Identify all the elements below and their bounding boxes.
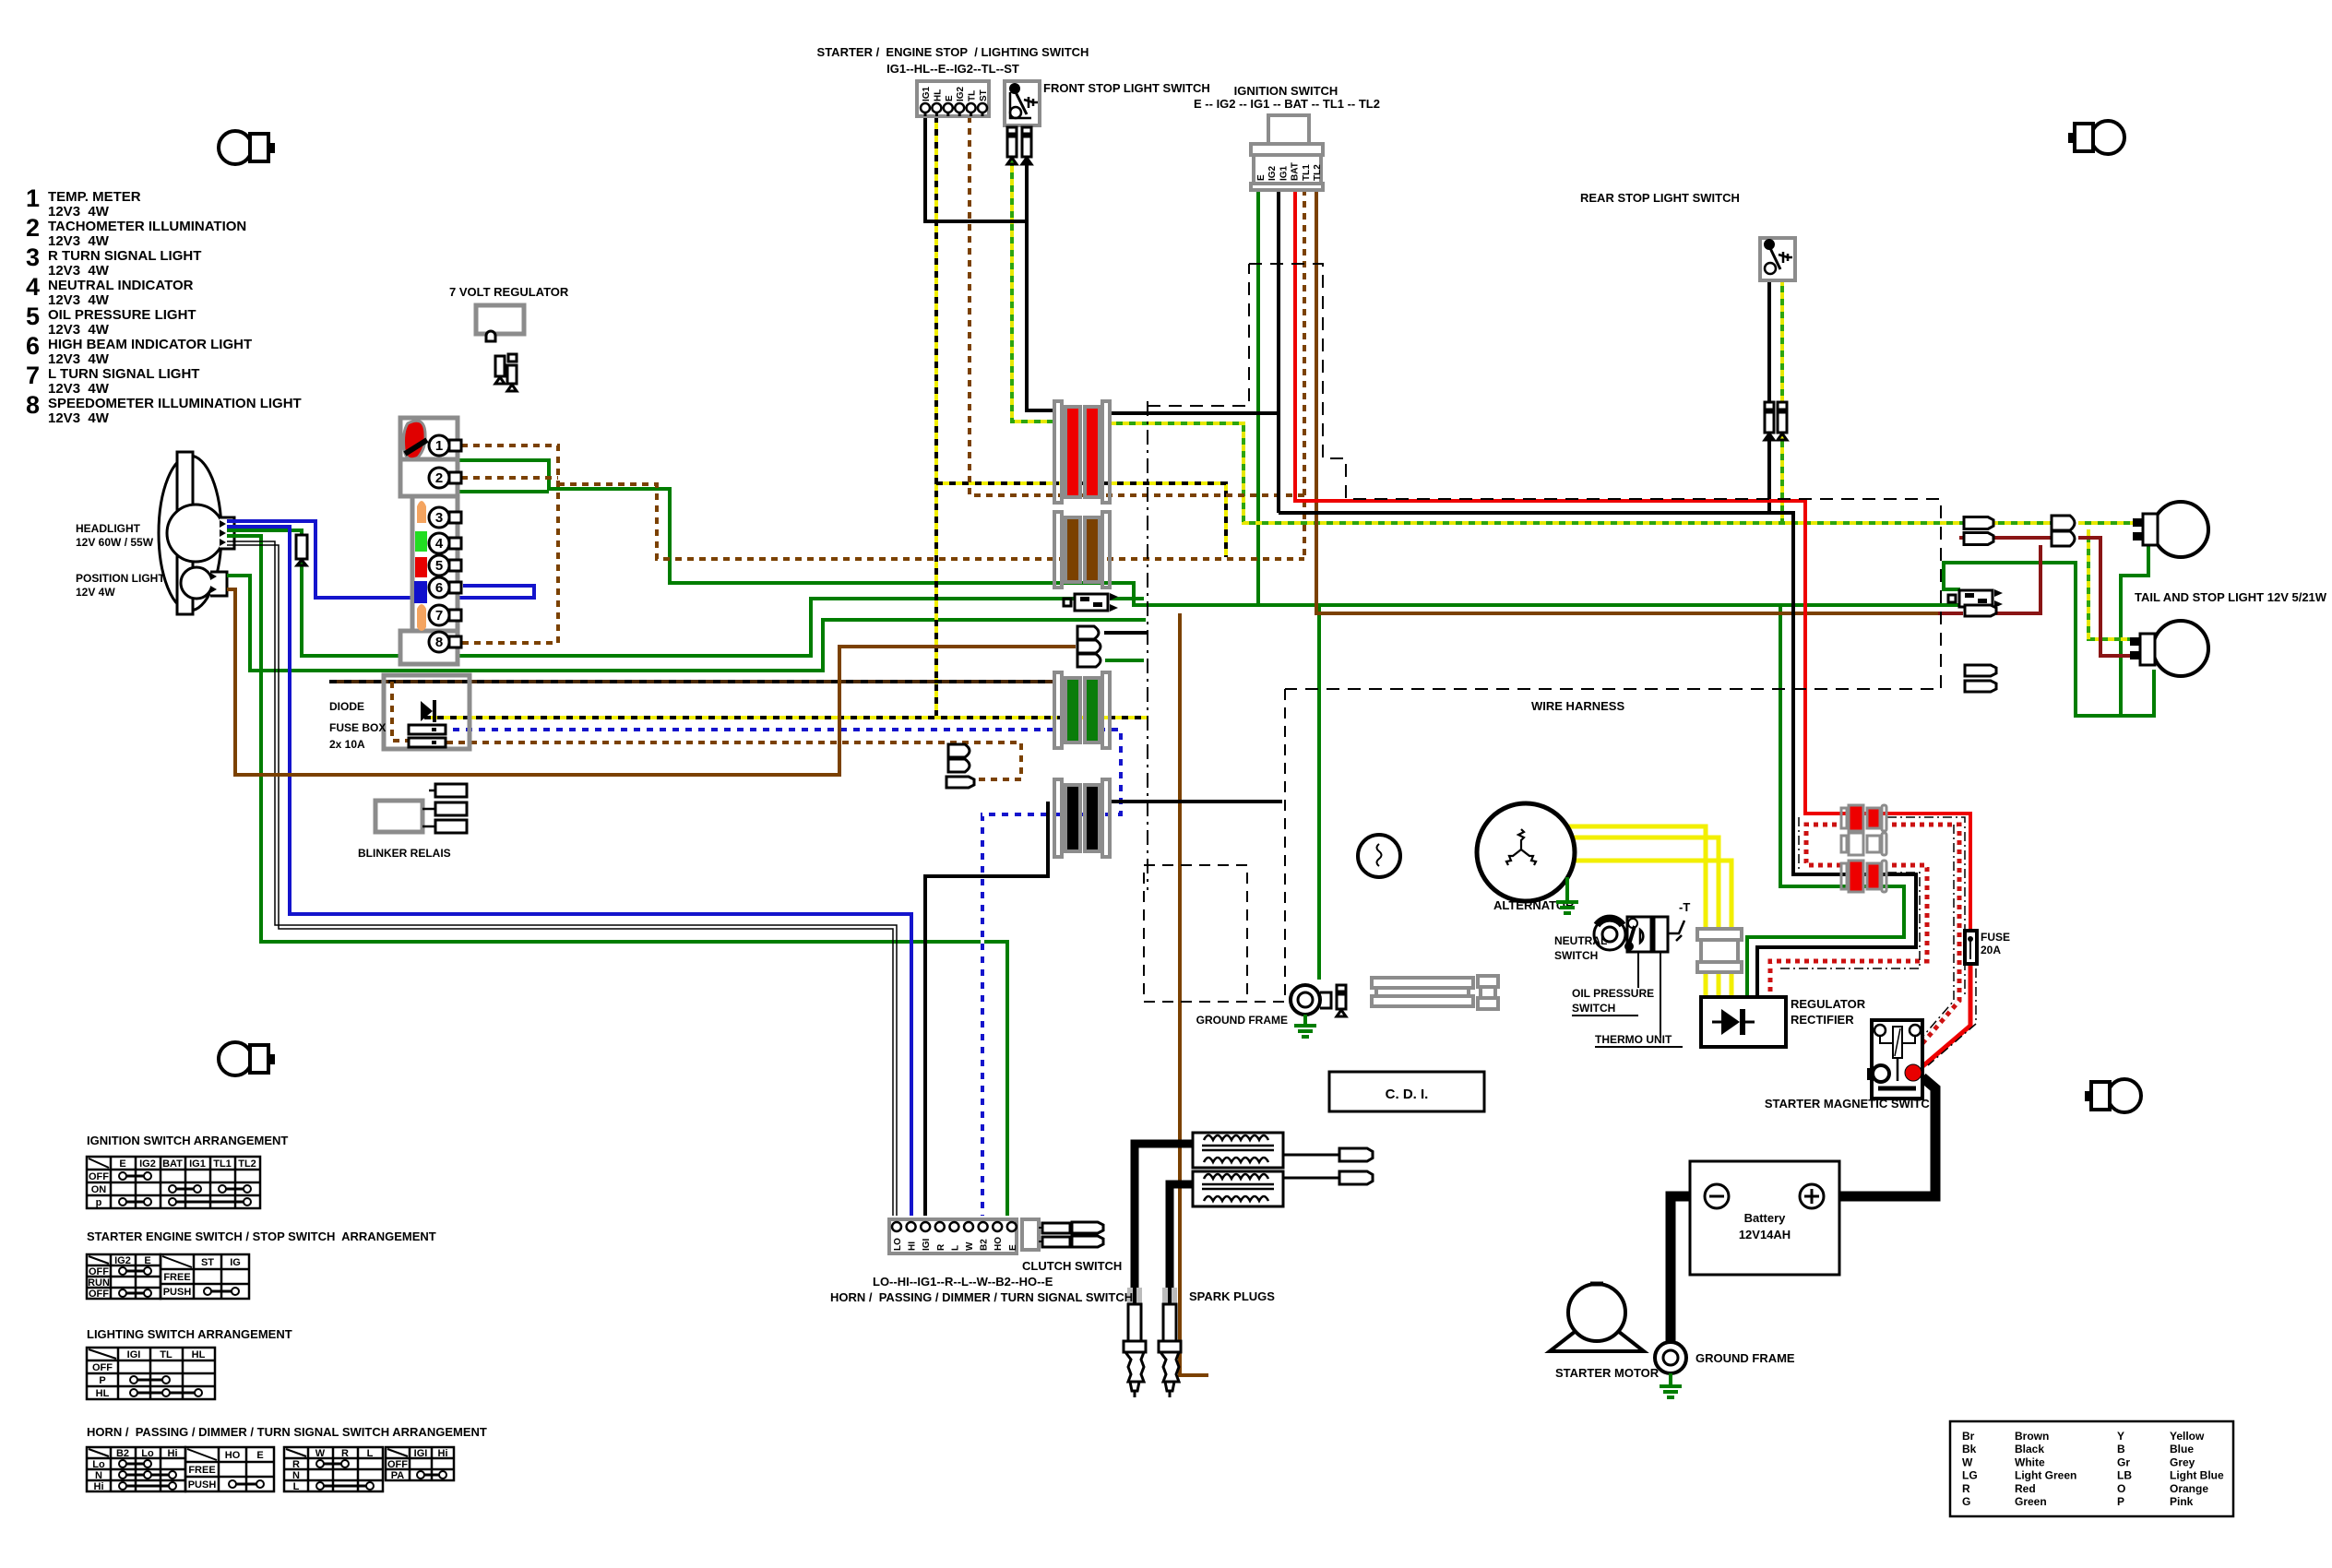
handlebar right switch connector bbox=[917, 81, 989, 116]
bulb rear-right turn signal bbox=[2108, 1079, 2141, 1112]
svg-text:Y: Y bbox=[2117, 1430, 2124, 1443]
svg-text:TEMP. METER: TEMP. METER bbox=[48, 189, 141, 205]
bullet connectors mid column bbox=[1077, 626, 1099, 639]
spade pair rear bbox=[1959, 590, 1993, 607]
wire brown dashed fuse output bbox=[446, 742, 1021, 779]
wire brown dashed into fuse box bbox=[392, 682, 409, 741]
wire brown/black dashed long run bbox=[329, 680, 1054, 683]
bullet connectors left of black block bbox=[948, 744, 970, 757]
oil pressure switch symbol bbox=[1627, 917, 1651, 952]
svg-text:5: 5 bbox=[435, 558, 443, 574]
svg-text:REAR STOP LIGHT SWITCH: REAR STOP LIGHT SWITCH bbox=[1580, 191, 1740, 205]
small fuse near ground bbox=[1337, 985, 1346, 992]
svg-text:NEUTRAL INDICATOR: NEUTRAL INDICATOR bbox=[48, 278, 194, 293]
svg-text:Light Blue: Light Blue bbox=[2170, 1469, 2224, 1482]
svg-text:HL: HL bbox=[933, 89, 943, 101]
svg-text:TL1: TL1 bbox=[1302, 164, 1312, 181]
wire harness dashed boundary bbox=[1249, 264, 1941, 689]
svg-text:TACHOMETER ILLUMINATION: TACHOMETER ILLUMINATION bbox=[48, 219, 246, 234]
svg-text:IG2: IG2 bbox=[139, 1158, 156, 1170]
bullet connectors unused rear bbox=[1965, 665, 1996, 676]
wire black bullet stub bbox=[1104, 631, 1148, 635]
svg-text:IGI: IGI bbox=[922, 1238, 932, 1251]
svg-text:BAT: BAT bbox=[1291, 162, 1301, 181]
svg-text:IG2: IG2 bbox=[114, 1255, 131, 1266]
svg-text:SWITCH: SWITCH bbox=[1572, 1002, 1615, 1015]
svg-text:Lo: Lo bbox=[92, 1459, 105, 1470]
cluster bulbs 1-8 bbox=[429, 435, 449, 456]
svg-text:IG1: IG1 bbox=[1279, 165, 1289, 181]
svg-text:3: 3 bbox=[435, 510, 443, 526]
svg-text:IG: IG bbox=[230, 1257, 241, 1268]
svg-text:WIRE HARNESS: WIRE HARNESS bbox=[1531, 699, 1624, 713]
svg-text:IG1: IG1 bbox=[189, 1158, 206, 1170]
svg-text:L: L bbox=[950, 1245, 960, 1251]
svg-text:-T: -T bbox=[1679, 900, 1690, 914]
svg-text:E: E bbox=[144, 1255, 150, 1266]
svg-text:Red: Red bbox=[2015, 1482, 2036, 1495]
svg-text:12V 60W / 55W: 12V 60W / 55W bbox=[76, 536, 154, 549]
svg-text:W: W bbox=[1962, 1455, 1973, 1468]
white connector pair mid bbox=[1841, 836, 1847, 852]
wire green cluster feed bbox=[458, 460, 1960, 605]
neutral switch bbox=[1594, 919, 1625, 950]
svg-text:Br: Br bbox=[1962, 1430, 1975, 1443]
svg-text:IGI: IGI bbox=[414, 1448, 428, 1459]
svg-text:Hi: Hi bbox=[168, 1448, 178, 1459]
wire blue high beam indicator loop bbox=[227, 521, 534, 598]
svg-text:HIGH BEAM INDICATOR LIGHT: HIGH BEAM INDICATOR LIGHT bbox=[48, 337, 252, 352]
ground frame mid bbox=[1291, 985, 1320, 1015]
svg-text:L: L bbox=[293, 1481, 300, 1492]
svg-text:C. D. I.: C. D. I. bbox=[1386, 1087, 1429, 1102]
ignition coil 1 bbox=[1193, 1133, 1283, 1168]
position light bulb bbox=[181, 567, 212, 599]
svg-text:Brown: Brown bbox=[2015, 1430, 2049, 1443]
svg-text:IG2: IG2 bbox=[956, 86, 966, 101]
svg-text:Grey: Grey bbox=[2170, 1455, 2195, 1468]
svg-text:Lo: Lo bbox=[141, 1448, 154, 1459]
svg-text:W: W bbox=[315, 1448, 326, 1459]
wire green headlight feed long run bbox=[227, 530, 1075, 656]
svg-text:OFF: OFF bbox=[92, 1362, 113, 1373]
starter magnetic switch bbox=[1872, 1020, 1922, 1099]
thermo unit symbol bbox=[1654, 917, 1668, 952]
svg-text:12V3 4W: 12V3 4W bbox=[48, 410, 110, 426]
svg-text:OIL PRESSURE LIGHT: OIL PRESSURE LIGHT bbox=[48, 307, 196, 323]
fuses under rear stop switch bbox=[1765, 402, 1774, 410]
svg-text:Blue: Blue bbox=[2170, 1443, 2194, 1455]
svg-text:8: 8 bbox=[435, 635, 443, 650]
svg-text:TL2: TL2 bbox=[238, 1158, 256, 1170]
svg-text:STARTER MOTOR: STARTER MOTOR bbox=[1555, 1366, 1660, 1380]
svg-text:Gr: Gr bbox=[2117, 1455, 2130, 1468]
svg-text:HO: HO bbox=[225, 1450, 241, 1461]
svg-text:LB: LB bbox=[2117, 1469, 2132, 1482]
svg-text:TL1: TL1 bbox=[213, 1158, 232, 1170]
svg-text:Hi: Hi bbox=[438, 1448, 448, 1459]
svg-text:L TURN SIGNAL LIGHT: L TURN SIGNAL LIGHT bbox=[48, 366, 199, 382]
svg-text:POSITION LIGHT: POSITION LIGHT bbox=[76, 572, 165, 585]
starter coil feed cables bbox=[1135, 1144, 1196, 1288]
svg-text:IG1: IG1 bbox=[922, 86, 932, 101]
cluster colour swatches bbox=[417, 501, 426, 523]
svg-text:p: p bbox=[96, 1197, 102, 1208]
svg-text:5: 5 bbox=[26, 303, 40, 330]
svg-text:OFF: OFF bbox=[89, 1266, 109, 1277]
svg-text:6: 6 bbox=[435, 580, 443, 596]
svg-text:G: G bbox=[1962, 1495, 1970, 1508]
spark plug 2 bbox=[1162, 1288, 1177, 1304]
wire green ignition switch E branch bbox=[1256, 189, 1260, 605]
svg-text:HORN / PASSING / DIMMER / TUR: HORN / PASSING / DIMMER / TURN SIGNAL SW… bbox=[87, 1425, 487, 1439]
fuse pair below regulator bbox=[495, 356, 505, 376]
svg-text:PUSH: PUSH bbox=[188, 1479, 217, 1491]
svg-text:OFF: OFF bbox=[387, 1459, 408, 1470]
wire black rear stop switch branch bbox=[1767, 279, 1771, 513]
svg-text:OIL PRESSURE: OIL PRESSURE bbox=[1572, 987, 1654, 1000]
svg-text:W: W bbox=[965, 1241, 975, 1251]
svg-text:1: 1 bbox=[435, 438, 443, 454]
svg-text:HORN / PASSING / DIMMER / TUR: HORN / PASSING / DIMMER / TURN SIGNAL SW… bbox=[830, 1290, 1133, 1304]
regulator rectifier bbox=[1701, 997, 1786, 1047]
connector block green 4P bbox=[1054, 672, 1062, 748]
svg-text:HEADLIGHT: HEADLIGHT bbox=[76, 522, 141, 535]
wire colour legend bbox=[1950, 1421, 2233, 1516]
front stop light switch bbox=[1005, 81, 1040, 125]
svg-text:O: O bbox=[2117, 1482, 2125, 1495]
starter motor bbox=[1550, 1328, 1644, 1351]
wire light-green/yellow rear stop switch branch bbox=[1780, 279, 1784, 523]
connector bars near ground frame bbox=[1372, 978, 1473, 988]
svg-text:LIGHTING SWITCH ARRANGEMENT: LIGHTING SWITCH ARRANGEMENT bbox=[87, 1327, 292, 1341]
inline fuse on headlight feed bbox=[296, 535, 307, 559]
svg-text:TL: TL bbox=[160, 1349, 173, 1360]
bulb front-left turn signal bbox=[219, 131, 252, 164]
svg-text:ST: ST bbox=[979, 89, 989, 101]
wire green tail light loop bbox=[2121, 545, 2148, 716]
svg-text:7: 7 bbox=[435, 608, 443, 624]
svg-text:E -- IG2 -- IG1 -- BAT -- TL1: E -- IG2 -- IG1 -- BAT -- TL1 -- TL2 bbox=[1194, 97, 1380, 111]
wire yellow/black branch upper bbox=[936, 483, 1226, 557]
fuse 2 in fuse box bbox=[409, 738, 446, 747]
svg-text:PA: PA bbox=[391, 1470, 405, 1481]
svg-text:N: N bbox=[95, 1470, 102, 1481]
wire green headlight low beam to switch connector bbox=[227, 536, 1007, 1216]
spark plug 1 bbox=[1127, 1288, 1142, 1304]
svg-text:IGI: IGI bbox=[127, 1349, 141, 1360]
red connector pair lower bbox=[1841, 863, 1847, 889]
svg-text:Green: Green bbox=[2015, 1495, 2047, 1508]
battery cable negative to ground bbox=[1671, 1196, 1708, 1345]
fuses under front stop switch bbox=[1007, 127, 1017, 134]
svg-text:P: P bbox=[2117, 1495, 2124, 1508]
wire brown dashed lighting switch TL bbox=[970, 116, 1304, 495]
wire green branch down to ground connector bbox=[1317, 605, 1321, 980]
svg-text:OFF: OFF bbox=[89, 1289, 109, 1300]
svg-text:BLINKER RELAIS: BLINKER RELAIS bbox=[358, 847, 451, 860]
svg-text:HL: HL bbox=[96, 1388, 110, 1399]
horn/dimmer switch connector bbox=[889, 1219, 1017, 1253]
dash-dot outline of starter cable bbox=[1887, 817, 1965, 998]
svg-text:Pink: Pink bbox=[2170, 1495, 2194, 1508]
wire black connector block to switch connector bbox=[1110, 800, 1282, 803]
svg-text:E: E bbox=[1256, 174, 1267, 181]
svg-text:E: E bbox=[119, 1158, 125, 1170]
wire blue/white fuse box to switch connector bbox=[446, 730, 1121, 1216]
diode symbol bbox=[421, 701, 433, 721]
blinker relais bbox=[375, 801, 422, 832]
CDI box bbox=[1329, 1072, 1484, 1111]
svg-text:R TURN SIGNAL LIGHT: R TURN SIGNAL LIGHT bbox=[48, 248, 201, 264]
wire green cluster stub bbox=[458, 490, 549, 493]
wire brown branch to coil area bbox=[1180, 613, 1208, 1375]
svg-text:12V3 4W: 12V3 4W bbox=[48, 351, 110, 367]
wire black main run to regulator bbox=[1110, 411, 1279, 415]
svg-text:RUN: RUN bbox=[88, 1277, 110, 1289]
svg-text:HI: HI bbox=[908, 1241, 918, 1251]
svg-text:FREE: FREE bbox=[188, 1465, 215, 1476]
svg-text:L: L bbox=[367, 1448, 374, 1459]
svg-text:8: 8 bbox=[26, 391, 40, 419]
wire light-green/yellow main run to rear bbox=[1110, 423, 2052, 523]
diode and fuse box housing bbox=[384, 675, 470, 749]
alternator ground bbox=[1565, 877, 1569, 902]
svg-text:DIODE: DIODE bbox=[329, 700, 364, 713]
svg-text:THERMO UNIT: THERMO UNIT bbox=[1595, 1033, 1672, 1046]
svg-text:Light Green: Light Green bbox=[2015, 1469, 2076, 1482]
svg-text:ON: ON bbox=[91, 1184, 107, 1195]
battery cable positive to starter switch bbox=[1821, 1077, 1935, 1196]
fuse 20A bbox=[1965, 931, 1977, 964]
svg-text:E: E bbox=[256, 1450, 263, 1461]
svg-text:STARTER ENGINE SWITCH / STOP S: STARTER ENGINE SWITCH / STOP SWITCH ARRA… bbox=[87, 1229, 436, 1243]
wire blue headlight to dimmer switch bbox=[227, 527, 911, 1216]
bullet connectors tail harness bbox=[2052, 516, 2075, 530]
red connector pair upper bbox=[1841, 808, 1847, 828]
bulb rear-left turn signal bbox=[219, 1042, 252, 1075]
svg-text:LO--HI--IG1--R--L--W--B2--HO--: LO--HI--IG1--R--L--W--B2--HO--E bbox=[873, 1275, 1053, 1289]
wire light-green/yellow front stop switch bbox=[1012, 153, 1054, 422]
wire red/white dashed starter circuit bbox=[1887, 825, 1959, 1063]
wire yellow alternator phases bbox=[1510, 826, 1706, 997]
wire brown dashed cluster pin1/pin8 bbox=[461, 445, 558, 643]
headlight main bulb bbox=[167, 505, 224, 562]
svg-text:IG1--HL--E--IG2--TL--ST: IG1--HL--E--IG2--TL--ST bbox=[886, 62, 1019, 76]
svg-text:4: 4 bbox=[26, 273, 40, 301]
svg-text:CLUTCH SWITCH: CLUTCH SWITCH bbox=[1022, 1259, 1122, 1273]
svg-text:HO: HO bbox=[993, 1237, 1004, 1251]
svg-text:12V3 4W: 12V3 4W bbox=[48, 292, 110, 308]
svg-text:IGNITION SWITCH ARRANGEMENT: IGNITION SWITCH ARRANGEMENT bbox=[87, 1134, 288, 1147]
svg-text:12V3 4W: 12V3 4W bbox=[48, 204, 110, 220]
svg-text:Black: Black bbox=[2015, 1443, 2044, 1455]
connector block black 4P bbox=[1054, 779, 1062, 857]
svg-text:TL2: TL2 bbox=[1313, 164, 1323, 181]
wire brown dashed cluster pin2 run bbox=[461, 476, 558, 480]
wire brown dashed ignition TL1 bbox=[1303, 189, 1306, 559]
svg-text:2x 10A: 2x 10A bbox=[329, 738, 365, 751]
indicator cluster housing bbox=[400, 418, 458, 459]
ground frame at battery bbox=[1655, 1342, 1686, 1373]
svg-text:E: E bbox=[1008, 1244, 1018, 1251]
svg-text:P: P bbox=[99, 1375, 105, 1386]
wire green tail feed bbox=[1944, 563, 2154, 716]
svg-text:B2: B2 bbox=[116, 1448, 129, 1459]
svg-text:R: R bbox=[1962, 1482, 1970, 1495]
ignition coil 2 bbox=[1193, 1171, 1283, 1206]
horn bbox=[1358, 835, 1400, 877]
svg-text:FRONT STOP LIGHT SWITCH: FRONT STOP LIGHT SWITCH bbox=[1043, 81, 1210, 95]
svg-text:FUSE: FUSE bbox=[1981, 931, 2010, 944]
svg-text:SPEEDOMETER ILLUMINATION LIGHT: SPEEDOMETER ILLUMINATION LIGHT bbox=[48, 396, 302, 411]
svg-text:Hi: Hi bbox=[94, 1481, 104, 1492]
svg-text:R: R bbox=[936, 1243, 946, 1251]
svg-text:7 VOLT REGULATOR: 7 VOLT REGULATOR bbox=[449, 285, 569, 299]
svg-text:ST: ST bbox=[201, 1257, 214, 1268]
svg-text:TL: TL bbox=[968, 90, 978, 101]
svg-text:4: 4 bbox=[435, 536, 444, 552]
wire red ignition BAT main bbox=[1295, 189, 1970, 931]
svg-text:B2: B2 bbox=[980, 1239, 990, 1251]
svg-text:RECTIFIER: RECTIFIER bbox=[1791, 1013, 1854, 1027]
svg-text:LG: LG bbox=[1962, 1469, 1978, 1482]
svg-text:White: White bbox=[2015, 1455, 2045, 1468]
svg-text:2: 2 bbox=[26, 214, 40, 242]
svg-text:SWITCH: SWITCH bbox=[1554, 949, 1598, 962]
wire dark red tail stop run bbox=[1938, 612, 1963, 615]
svg-text:6: 6 bbox=[26, 332, 40, 360]
alternator connector bbox=[1697, 929, 1742, 940]
svg-text:PUSH: PUSH bbox=[163, 1287, 192, 1298]
wire green position light bbox=[227, 576, 1146, 671]
svg-text:FREE: FREE bbox=[163, 1272, 190, 1283]
alternator bbox=[1477, 803, 1575, 901]
wire brown ignition TL2 long run bbox=[1316, 189, 1938, 613]
svg-text:FUSE BOX: FUSE BOX bbox=[329, 721, 386, 734]
svg-text:IG2: IG2 bbox=[1267, 165, 1278, 181]
wire white headlight to switch connector bbox=[227, 541, 897, 1216]
svg-text:REGULATOR: REGULATOR bbox=[1791, 997, 1866, 1011]
svg-text:TAIL AND STOP LIGHT 12V 5/21W: TAIL AND STOP LIGHT 12V 5/21W bbox=[2135, 590, 2327, 604]
svg-text:R: R bbox=[341, 1448, 349, 1459]
battery bbox=[1690, 1161, 1839, 1275]
connector block brown 4P bbox=[1054, 512, 1062, 588]
svg-text:12V3 4W: 12V3 4W bbox=[48, 322, 110, 338]
svg-text:Bk: Bk bbox=[1962, 1443, 1977, 1455]
fuse 1 in fuse box bbox=[409, 725, 446, 734]
clutch switch bbox=[1022, 1219, 1039, 1250]
red pointer in cluster window 1 bbox=[404, 421, 426, 459]
svg-text:Orange: Orange bbox=[2170, 1482, 2208, 1495]
bulb front-right turn signal bbox=[2091, 121, 2124, 154]
svg-text:12V3 4W: 12V3 4W bbox=[48, 381, 110, 397]
tail and stop light 2 bbox=[2153, 621, 2208, 676]
svg-text:1: 1 bbox=[26, 184, 40, 212]
wire yellow/black lighting switch HL bbox=[934, 116, 938, 718]
svg-text:12V3 4W: 12V3 4W bbox=[48, 263, 110, 279]
svg-text:R: R bbox=[292, 1459, 300, 1470]
headlight reflector bbox=[159, 456, 221, 611]
svg-text:OFF: OFF bbox=[89, 1171, 109, 1182]
wire brown position light return bbox=[227, 589, 1076, 775]
svg-text:Battery: Battery bbox=[1744, 1211, 1787, 1225]
svg-text:BAT: BAT bbox=[162, 1158, 183, 1170]
wire green stub right of spade connector bbox=[1110, 597, 1144, 600]
svg-text:STARTER / ENGINE STOP / LIGH: STARTER / ENGINE STOP / LIGHTING SWITCH bbox=[817, 45, 1089, 59]
wire light-green/yellow to tail light 2 bbox=[2088, 529, 2136, 639]
svg-text:2: 2 bbox=[435, 470, 443, 486]
svg-text:3: 3 bbox=[26, 244, 40, 271]
labels oil pressure switch / thermo unit bbox=[1637, 952, 1639, 988]
svg-text:HL: HL bbox=[192, 1349, 206, 1360]
wire black ignition IG1 branch bbox=[1277, 189, 1280, 513]
svg-text:GROUND FRAME: GROUND FRAME bbox=[1695, 1351, 1795, 1365]
svg-text:SPARK PLUGS: SPARK PLUGS bbox=[1189, 1289, 1275, 1303]
spade connector pair mid bbox=[1075, 594, 1108, 611]
svg-text:20A: 20A bbox=[1981, 944, 2001, 956]
svg-text:N: N bbox=[292, 1470, 300, 1481]
svg-text:STARTER MAGNETIC SWITCH: STARTER MAGNETIC SWITCH bbox=[1765, 1097, 1938, 1111]
wire green branch to regulator bbox=[1747, 605, 1904, 997]
svg-text:12V14AH: 12V14AH bbox=[1739, 1228, 1791, 1241]
svg-text:GROUND FRAME: GROUND FRAME bbox=[1196, 1014, 1288, 1027]
wire black lighting switch IG1 bbox=[925, 116, 1027, 221]
svg-text:B: B bbox=[2117, 1443, 2125, 1455]
svg-text:Yellow: Yellow bbox=[2170, 1430, 2205, 1443]
svg-text:12V3 4W: 12V3 4W bbox=[48, 233, 110, 249]
spark plug lead stubs bbox=[1284, 1154, 1317, 1157]
tail and stop light 1 bbox=[2153, 502, 2208, 557]
wire black front stop switch to junction block bbox=[1027, 153, 1054, 410]
svg-text:E: E bbox=[945, 95, 955, 101]
svg-text:12V 4W: 12V 4W bbox=[76, 586, 115, 599]
svg-text:LO: LO bbox=[893, 1238, 903, 1251]
svg-text:IGNITION SWITCH: IGNITION SWITCH bbox=[1234, 84, 1339, 98]
svg-text:NEUTRAL: NEUTRAL bbox=[1554, 934, 1607, 947]
headlight bulb socket bbox=[220, 517, 234, 549]
connector block red 6P bbox=[1054, 401, 1062, 503]
svg-text:7: 7 bbox=[26, 362, 40, 389]
ignition switch body bbox=[1268, 115, 1309, 144]
